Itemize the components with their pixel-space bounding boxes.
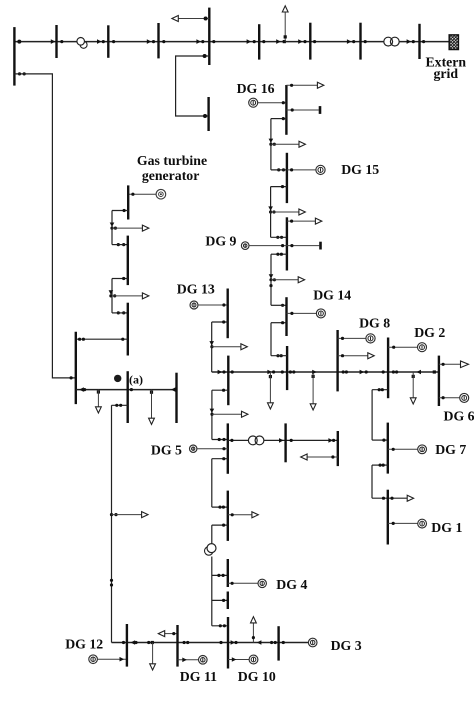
bus G — [75, 332, 77, 404]
wire load line — [338, 355, 371, 357]
load arrow head right — [252, 512, 258, 518]
wire S2 jog in — [271, 169, 287, 171]
wire H1 jog out — [372, 464, 388, 466]
bus T8 — [359, 23, 361, 60]
bus F2 — [127, 236, 129, 286]
bus C5 — [227, 559, 229, 587]
load arrow head down — [96, 407, 102, 413]
junction dot — [102, 40, 105, 43]
switch arrow — [97, 39, 102, 44]
junction dot — [234, 641, 237, 644]
junction dot — [17, 40, 21, 44]
wire S1 drop — [270, 119, 272, 145]
wire load riser — [152, 643, 154, 665]
wire load line — [176, 18, 210, 20]
wire DG 14 lead — [287, 312, 317, 314]
wire S3-S4 drop — [270, 280, 272, 306]
switch arrow — [267, 370, 272, 375]
junction dot — [110, 583, 113, 586]
bus B4 — [277, 626, 279, 660]
switch arrow — [232, 657, 237, 662]
wire load line — [228, 514, 254, 516]
switch arrow — [110, 223, 115, 227]
svg-text:DG 11: DG 11 — [180, 669, 217, 684]
junction dot — [341, 354, 344, 357]
wire A2 jog out — [112, 404, 128, 406]
wire load line — [439, 363, 464, 365]
generator DG 7 — [418, 445, 427, 454]
bus S4 — [285, 297, 287, 336]
svg-text:DG 2: DG 2 — [414, 325, 445, 340]
junction dot — [231, 513, 234, 516]
wire load line — [212, 413, 244, 415]
junction dot — [117, 311, 120, 314]
wire DG 10 lead — [228, 659, 249, 661]
junction dot — [162, 40, 165, 43]
junction dot — [291, 108, 294, 111]
switch arrow — [120, 657, 125, 662]
junction dot — [218, 438, 221, 441]
junction dot — [212, 40, 215, 43]
junction dot — [412, 40, 415, 43]
junction dot — [313, 40, 316, 43]
switch arrow — [231, 640, 236, 645]
load arrow head right — [142, 293, 148, 299]
load junction — [97, 390, 100, 393]
bus H1 — [387, 423, 389, 474]
junction dot — [253, 40, 256, 43]
bus B1 — [126, 624, 128, 667]
junction dot — [113, 294, 116, 297]
svg-text:DG 12: DG 12 — [65, 637, 103, 652]
junction dot — [203, 54, 207, 58]
junction dot — [222, 457, 225, 460]
junction dot — [345, 370, 348, 373]
junction dot — [262, 40, 265, 43]
svg-text:DG 7: DG 7 — [435, 442, 466, 457]
wire mid trunk — [212, 371, 439, 373]
generator DG 4 — [258, 579, 266, 587]
wire load line — [287, 220, 318, 222]
wire DG 5 lead — [197, 448, 228, 450]
wire DG 5 row right — [264, 439, 338, 441]
junction dot — [341, 337, 344, 340]
junction dot — [222, 524, 225, 527]
wire load line — [162, 633, 178, 635]
switch arrow — [276, 39, 281, 44]
wire load riser — [269, 372, 271, 404]
bus T5 — [208, 8, 210, 65]
junction dot — [379, 464, 382, 467]
switch arrow — [147, 39, 152, 44]
junction dot — [110, 227, 113, 230]
wire B3 jog in — [212, 625, 228, 627]
wire F1-F2 drop — [111, 228, 113, 245]
junction dot — [276, 354, 279, 357]
junction dot — [78, 338, 81, 341]
junction dot — [114, 513, 117, 516]
junction dot — [217, 574, 220, 577]
junction dot — [219, 641, 222, 644]
wire S2 jog out — [271, 186, 287, 188]
generator DG 3 — [308, 638, 317, 647]
junction dot — [290, 84, 293, 87]
junction dot — [117, 243, 120, 246]
wire S1 jog out — [271, 118, 287, 120]
junction dot — [222, 370, 225, 373]
load arrow head right — [368, 353, 374, 359]
svg-text:DG 5: DG 5 — [151, 442, 182, 457]
svg-text:generator: generator — [142, 168, 199, 183]
wire C3-C4 drop — [211, 459, 213, 507]
bus S5 — [286, 346, 288, 390]
wire DG 15 lead — [287, 169, 316, 171]
transformer TX2 — [384, 37, 399, 46]
junction dot — [130, 388, 133, 391]
junction dot — [365, 370, 368, 373]
wire bus T1 to bus G link — [14, 74, 75, 378]
junction dot — [392, 448, 395, 451]
wire C3 jog out — [212, 458, 228, 460]
wire DG 12 lead — [97, 658, 127, 660]
junction dot — [82, 338, 85, 341]
junction dot — [273, 143, 276, 146]
switch arrow — [196, 39, 201, 44]
bus D4 — [387, 338, 389, 399]
junction dot — [231, 370, 234, 373]
load arrow head right — [242, 411, 248, 417]
wire H2 jog in and load — [372, 497, 410, 499]
wire H1-H2 drop — [371, 465, 373, 498]
wire load line — [271, 143, 302, 145]
svg-text:grid: grid — [434, 66, 459, 81]
svg-text:DG 13: DG 13 — [177, 282, 215, 297]
switch arrow — [416, 370, 421, 375]
wire TX4-C5 drop — [211, 557, 213, 626]
load arrow head down — [149, 418, 155, 424]
wire station row — [76, 389, 177, 391]
transformer TX3 — [248, 436, 263, 445]
junction dot — [290, 168, 293, 171]
junction dot — [131, 193, 134, 196]
junction dot — [109, 294, 112, 297]
generator DG 8 — [366, 334, 375, 343]
junction dot — [222, 389, 225, 392]
wire F2 jog out — [112, 278, 128, 280]
junction dot — [222, 320, 225, 323]
wire load riser — [151, 390, 153, 419]
load junction — [150, 391, 153, 394]
switch arrow — [279, 438, 284, 443]
wire load line — [112, 227, 145, 229]
terminator bar — [319, 242, 322, 250]
wire C6 jog in — [212, 599, 228, 601]
wire F2-F3 drop — [111, 296, 113, 313]
bus T3 — [107, 25, 109, 58]
wire C4 jog in — [212, 506, 228, 508]
junction dot — [110, 579, 113, 582]
junction dot — [280, 236, 283, 239]
junction dot — [289, 370, 292, 373]
junction dot — [122, 277, 125, 280]
node (a) marker — [114, 375, 121, 382]
load arrow head right — [299, 141, 305, 147]
generator DG 12 — [89, 655, 98, 664]
junction dot — [281, 185, 284, 188]
junction dot — [273, 278, 276, 281]
terminator bar — [319, 106, 322, 114]
generator DG 6 — [460, 393, 469, 402]
load arrow head up — [251, 617, 257, 623]
wire C1 jog out — [212, 321, 228, 323]
junction dot — [292, 370, 295, 373]
junction dot — [123, 209, 126, 212]
junction dot — [290, 439, 293, 442]
wire load line — [271, 279, 301, 281]
junction dot — [219, 624, 222, 627]
generator DG 15 — [316, 165, 325, 174]
load arrow head left — [158, 631, 164, 637]
svg-text:DG 8: DG 8 — [359, 315, 390, 330]
svg-text:DG 9: DG 9 — [205, 234, 236, 249]
switch arrow — [171, 387, 176, 392]
wire load riser — [252, 623, 254, 643]
switch arrow — [209, 341, 214, 345]
junction dot — [18, 72, 21, 75]
junction dot — [281, 370, 284, 373]
junction dot — [269, 210, 272, 213]
bus T1 — [13, 27, 15, 86]
bus D3 — [336, 330, 338, 391]
wire C4 jog out — [212, 524, 228, 526]
wire bus G to F3 link — [76, 338, 128, 340]
external grid symbol — [449, 35, 458, 50]
junction dot — [186, 641, 189, 644]
svg-text:(a): (a) — [129, 372, 143, 386]
switch arrow — [347, 39, 352, 44]
wire load riser — [284, 12, 286, 42]
junction dot — [382, 439, 385, 442]
junction dot — [222, 599, 225, 602]
junction dot — [272, 370, 275, 373]
bus T6 — [258, 24, 260, 59]
junction dot — [114, 227, 117, 230]
generator DG 1 — [418, 519, 427, 528]
wire DG 4 lead — [228, 582, 258, 584]
junction dot — [269, 143, 272, 146]
junction dot — [364, 40, 367, 43]
junction dot — [281, 321, 284, 324]
junction dot — [280, 354, 283, 357]
wire S4-S5 drop — [270, 323, 272, 356]
svg-text:DG 1: DG 1 — [431, 520, 462, 535]
junction dot — [382, 370, 385, 373]
junction dot — [210, 413, 213, 416]
bus H2 — [387, 490, 389, 545]
junction dot — [392, 522, 395, 525]
generator DG 16 — [249, 98, 258, 107]
bus B2 — [176, 625, 178, 667]
switch arrow — [298, 39, 303, 44]
junction dot — [119, 404, 122, 407]
junction dot — [223, 624, 226, 627]
wire bottom trunk — [112, 642, 309, 644]
wire bus T5 to bus T5b link — [176, 56, 210, 116]
junction dot — [442, 396, 445, 399]
junction dot — [112, 40, 115, 43]
junction dot — [110, 513, 113, 516]
load junction — [412, 375, 415, 378]
wire C3 jog in — [212, 439, 228, 441]
wire load riser — [312, 372, 314, 405]
wire load line — [112, 295, 145, 297]
load arrow head right — [299, 209, 305, 215]
load arrow head down — [410, 398, 416, 404]
load arrow head right — [142, 225, 148, 231]
load arrow head right — [315, 218, 321, 224]
svg-text:DG 15: DG 15 — [341, 162, 379, 177]
junction dot — [276, 236, 279, 239]
junction dot — [392, 370, 395, 373]
load junction — [269, 375, 272, 378]
junction dot — [282, 641, 285, 644]
junction dot — [390, 497, 393, 500]
junction dot — [290, 312, 293, 315]
bus T9 — [418, 24, 420, 59]
wire DG 1 lead — [388, 522, 418, 524]
generator DG 14 — [316, 309, 325, 318]
junction dot — [222, 506, 225, 509]
junction dot — [121, 338, 124, 341]
wire H1 jog in — [372, 439, 388, 441]
wire load line — [306, 456, 338, 458]
junction dot — [282, 168, 285, 171]
switch arrow — [328, 438, 333, 443]
wire stub line — [286, 109, 318, 111]
bus T4 — [157, 23, 159, 58]
wire DG 6 lead — [439, 397, 460, 399]
wire DG 16 lead — [258, 102, 287, 104]
junction dot — [60, 40, 63, 43]
junction dot — [269, 278, 272, 281]
junction dot — [277, 168, 280, 171]
wire S4 jog in — [271, 304, 287, 306]
junction dot — [152, 40, 155, 43]
wire DG 8 lead — [338, 337, 366, 339]
wire S3 jog in — [271, 236, 287, 238]
wire load line — [212, 346, 243, 348]
wire C2 drop — [211, 390, 213, 439]
wire S2-S3 drop — [270, 212, 272, 237]
svg-text:DG 6: DG 6 — [444, 408, 474, 423]
junction dot — [230, 439, 233, 442]
wire F2 drop — [111, 279, 113, 296]
junction dot — [280, 253, 283, 256]
switch arrow — [79, 387, 84, 392]
junction dot — [201, 40, 204, 43]
junction dot — [382, 464, 385, 467]
wire stub line — [287, 245, 319, 247]
junction dot — [252, 636, 255, 639]
junction dot — [122, 243, 125, 246]
wire DG 7 lead — [388, 448, 418, 450]
gas turbine generator — [156, 189, 166, 199]
junction dot — [332, 439, 335, 442]
bus F3 — [127, 303, 129, 356]
wire gas generator lead — [128, 193, 156, 195]
junction dot — [134, 641, 137, 644]
wire load line — [271, 211, 302, 213]
wire load riser — [97, 390, 99, 408]
junction dot — [281, 304, 284, 307]
switch arrow — [360, 370, 365, 375]
switch arrow — [109, 290, 114, 294]
switch arrow — [407, 39, 412, 44]
bus S3 — [286, 217, 288, 270]
wire C1 drop — [211, 322, 213, 347]
wire C5 jog in — [212, 574, 228, 576]
switch arrow — [268, 206, 273, 210]
wire S3 drop — [270, 254, 272, 280]
svg-text:DG 4: DG 4 — [276, 577, 307, 592]
junction dot — [222, 574, 225, 577]
junction dot — [122, 311, 125, 314]
bus A2 — [126, 371, 128, 423]
junction dot — [183, 641, 186, 644]
bus F1 — [127, 185, 129, 219]
svg-text:DG 10: DG 10 — [238, 669, 276, 684]
junction dot — [276, 253, 279, 256]
junction dot — [378, 388, 381, 391]
load arrow head left — [301, 454, 307, 460]
switch arrow — [182, 658, 187, 663]
bus T2 — [55, 25, 57, 58]
junction dot — [147, 641, 150, 644]
generator DG 13 — [190, 301, 198, 309]
generator DG 5 — [190, 445, 197, 452]
load arrow head down — [268, 403, 274, 409]
generator DG 10 — [249, 655, 258, 664]
junction dot — [382, 497, 385, 500]
load junction — [151, 641, 154, 644]
junction dot — [222, 447, 225, 450]
junction square — [283, 40, 286, 43]
wire long feeder drop — [111, 405, 113, 642]
junction dot — [115, 404, 118, 407]
bus B3 — [227, 617, 229, 669]
wire top trunk — [14, 41, 449, 43]
bus C2 — [227, 356, 229, 406]
load arrow head left — [172, 16, 178, 22]
bus S1 — [285, 85, 287, 135]
junction dot — [270, 641, 273, 644]
junction dot — [203, 114, 207, 118]
wire D4-H1 drop — [371, 390, 373, 440]
junction dot — [281, 244, 284, 247]
svg-text:DG 14: DG 14 — [313, 288, 351, 303]
wire F1 drop — [111, 211, 113, 229]
transformer TX1 — [77, 38, 87, 49]
transformer TX4 — [205, 544, 217, 556]
wire load line — [286, 84, 319, 86]
bus S2 — [286, 153, 288, 203]
load arrow head down — [150, 664, 156, 670]
junction dot — [222, 303, 225, 306]
bus T5b — [207, 97, 209, 131]
junction dot — [331, 455, 334, 458]
switch arrow — [269, 139, 274, 143]
load arrow head right — [461, 361, 469, 368]
